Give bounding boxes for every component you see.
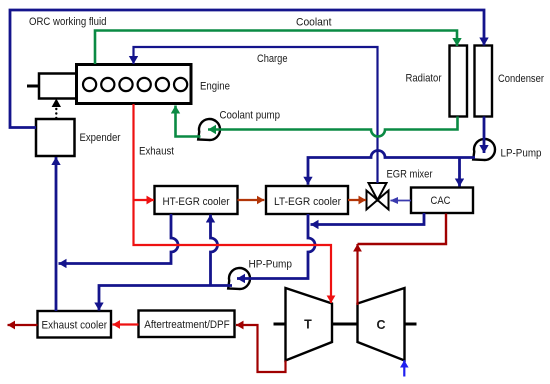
svg-text:Radiator: Radiator [406,73,442,85]
wire: LT-EGR to EGR mixer (dark red arrow) [348,199,366,201]
HT-EGR cooler box [155,186,238,214]
wire: LP-pump branch to CAC top (navy) [458,158,461,187]
aftertreatment/DPF box [139,311,235,338]
svg-text:ORC working fluid: ORC working fluid [29,16,107,28]
svg-text:Expender: Expender [80,132,121,144]
turbo shaft [332,323,358,326]
svg-text:C: C [376,318,385,332]
wire: DPF to exhaust cooler (red arrow) [113,323,139,325]
wire: compressor outlet across and up to CAC bottom (dark red) [358,214,447,245]
condenser [475,46,493,117]
coupling box on engine left [27,74,77,99]
HP-pump body [228,268,250,289]
svg-text:HT-EGR cooler: HT-EGR cooler [163,196,230,208]
svg-text:EGR mixer: EGR mixer [387,169,433,181]
wire: ORC expander outlet to condenser (navy, top loop) [10,10,484,128]
engine cylinders [83,78,187,91]
wire: compressor outlet up (dark red arrow) [356,244,358,305]
wire: radiator bottom to coolant pump (green, hop under charge line) [208,117,458,137]
wire: HP-pump branch up to HT-EGR bottom (navy, hop over exhaust line) [211,215,218,286]
wire: turbine outlet to DPF (dark red) [236,325,286,372]
coolant pump body [198,119,220,140]
dotted shaft arrow expander to coupling [52,99,61,119]
compressor right stub [405,323,417,326]
wire: EGR mixer to engine intake (charge, navy 2.2) [134,47,378,183]
wire: CAC to EGR mixer (thin blue arrow) [391,200,412,202]
wire: coolant pump outlet to engine bottom (green) [176,106,201,137]
svg-text:HP-Pump: HP-Pump [249,259,293,271]
svg-text:Engine: Engine [200,81,230,93]
expander box [36,119,75,156]
turbine T [286,288,333,361]
svg-text:Condenser: Condenser [498,73,544,85]
wire: exhaust branch into HT-EGR cooler (red arrow) [134,199,155,201]
svg-text:Exhaust: Exhaust [139,146,175,158]
radiator [450,46,468,117]
wire: air intake into compressor (bright blue arrow) [403,360,405,376]
CAC box [411,188,473,214]
svg-text:Coolant: Coolant [296,17,332,29]
wire: exhaust cooler top to expander (navy riser) [55,157,58,311]
wire: LT-EGR bottom to HP-pump inlet (navy, hop over exhaust line) [237,214,315,279]
engine block [77,65,192,104]
svg-text:Charge: Charge [257,53,288,65]
exhaust cooler box [38,311,112,338]
wire: engine top to radiator (green coolant) [95,31,457,65]
compressor C [358,288,405,361]
wire: condenser to LP-pump (navy) [483,117,486,154]
wire: engine exhaust down / across / to turbine (red) [134,104,332,303]
svg-text:Coolant pump: Coolant pump [220,110,281,122]
wire: HP-pump outlet to exhaust cooler top (navy) [99,286,232,311]
wire: HT-EGR bottom to expander riser (navy, hop over exhaust line) [59,214,179,264]
wire: LP-pump outlet to LT-EGR cooler top (navy, hop over charge line) [308,151,475,185]
svg-text:LT-EGR cooler: LT-EGR cooler [274,196,341,208]
LT-EGR cooler box [266,186,348,214]
svg-text:CAC: CAC [431,195,451,207]
LP-pump body [473,139,495,160]
svg-text:Exhaust cooler: Exhaust cooler [42,320,108,332]
svg-text:LP-Pump: LP-Pump [501,148,542,160]
svg-text:Aftertreatment/DPF: Aftertreatment/DPF [144,319,230,331]
wire: CAC bottom to HP-pump line (navy) [311,213,425,225]
svg-text:T: T [304,318,312,332]
EGR mixer valve [367,183,389,210]
wire: exhaust cooler outlet to atmosphere (dark red arrow) [8,324,38,326]
wire: HT-EGR to LT-EGR (dark red arrow) [238,199,265,201]
turbine left stub [274,323,286,326]
